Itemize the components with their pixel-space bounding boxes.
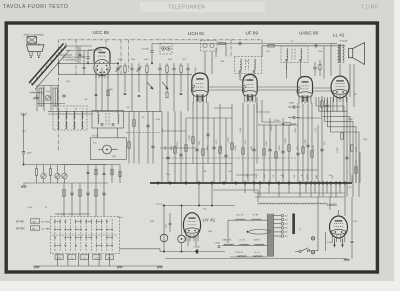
resistor R19 — [166, 92, 168, 98]
wire bundle staircase — [316, 97, 359, 197]
cable loop — [249, 230, 271, 235]
resistor R17 — [268, 45, 275, 47]
coil L6 — [74, 112, 75, 120]
heater row 2 — [222, 244, 268, 246]
wire — [120, 248, 161, 250]
resistor R21 — [107, 90, 109, 96]
svg-text:4,7kΩ: 4,7kΩ — [216, 139, 218, 144]
riser x276 — [275, 125, 277, 183]
svg-text:LL 41: LL 41 — [255, 252, 261, 254]
wire — [339, 183, 341, 193]
wire — [239, 74, 241, 81]
svg-text:145: 145 — [285, 228, 288, 230]
tuning gang dashed drop 3 — [230, 40, 232, 57]
T2 capacitor Cb — [299, 59, 301, 61]
antenna socket prong 2 — [38, 52, 40, 56]
svg-text:0,2MΩ: 0,2MΩ — [228, 137, 230, 143]
B+ line 2 — [262, 45, 345, 47]
trimmer capacitor CT4 — [55, 173, 60, 178]
resistor R3 — [166, 66, 168, 73]
svg-text:220: 220 — [285, 215, 288, 217]
capacitor C14 — [86, 192, 89, 194]
mains transformer winding — [268, 214, 274, 257]
resistor R16 — [219, 42, 226, 44]
hline y131 — [162, 130, 186, 132]
svg-text:FM: FM — [32, 228, 35, 230]
wire — [187, 237, 189, 246]
svg-text:100pF: 100pF — [240, 127, 242, 133]
capacitor C11 — [146, 124, 149, 126]
svg-text:25µF: 25µF — [166, 174, 170, 176]
capacitor C10 — [112, 123, 115, 125]
riser x289 — [288, 125, 290, 183]
svg-text:OM: OM — [32, 221, 36, 223]
svg-text:UCC 85: UCC 85 — [236, 215, 244, 217]
tuning gang dashed drop 2 — [128, 40, 130, 72]
wire — [329, 197, 331, 210]
coil L8 — [58, 121, 59, 129]
antenna socket box — [27, 37, 37, 44]
page inner area — [8, 25, 376, 270]
hline y118b — [298, 117, 322, 119]
svg-text:2x: 2x — [114, 149, 116, 151]
hline y108 — [214, 107, 232, 109]
svg-text:100pF: 100pF — [207, 146, 209, 151]
svg-text:FO: FO — [95, 257, 98, 259]
svg-text:5nF: 5nF — [273, 175, 275, 178]
ferrite winding former 1 — [39, 88, 44, 106]
resistor R22 — [95, 169, 97, 175]
svg-text:0,5MΩ: 0,5MΩ — [285, 138, 287, 144]
wire — [88, 49, 102, 51]
svg-text:12pF: 12pF — [46, 91, 50, 93]
wire — [165, 258, 300, 260]
wire — [169, 213, 171, 223]
AVC dashed line — [162, 157, 298, 159]
ground — [345, 258, 350, 260]
svg-text:10.000pF: 10.000pF — [340, 40, 349, 42]
resistor R23 — [111, 169, 113, 175]
wire — [257, 97, 270, 112]
svg-text:30pF: 30pF — [131, 59, 135, 61]
T1 winding 1 — [240, 59, 241, 70]
B+ line — [210, 43, 331, 45]
riser UABC80 pin 3 — [307, 104, 309, 183]
ground — [118, 266, 123, 268]
wire — [162, 205, 235, 207]
tube LL41 — [331, 76, 349, 102]
wire — [338, 210, 340, 216]
tuning gang dashed line — [59, 40, 263, 150]
UCC85 pin drop wires — [96, 75, 108, 112]
ground — [35, 266, 40, 268]
tastiera center line — [52, 234, 118, 236]
long wire — [48, 110, 162, 112]
wire — [23, 154, 25, 165]
capacitor C26 — [180, 92, 183, 94]
wire — [286, 63, 288, 70]
svg-text:25µF: 25µF — [332, 175, 334, 179]
riser x318 — [317, 125, 319, 183]
hline y163 — [168, 163, 232, 165]
wire — [24, 164, 108, 166]
wire — [330, 44, 332, 77]
bus lower line 1 — [255, 192, 345, 194]
svg-text:200pF: 200pF — [295, 127, 297, 133]
capacitor C34 — [83, 66, 86, 68]
capacitor C23 — [314, 44, 316, 47]
ferrite rod antenna — [29, 43, 70, 90]
riser UCH81 pin 4 — [207, 102, 209, 164]
resistor R9 — [128, 142, 130, 149]
svg-text:0,1MΩ: 0,1MΩ — [189, 135, 191, 141]
riser UF89 pin 2 — [247, 104, 249, 183]
svg-text:80pF: 80pF — [168, 59, 172, 61]
riser LL41 pin 3 — [342, 99, 344, 112]
capacitor C8 — [62, 94, 65, 96]
svg-text:MF PRI: MF PRI — [16, 221, 24, 223]
wire — [262, 100, 281, 122]
tube UM80 — [330, 216, 348, 242]
border frame — [6, 23, 377, 272]
svg-text:TELEFUNKEN: TELEFUNKEN — [168, 5, 205, 11]
svg-text:470: 470 — [142, 117, 145, 119]
riser x168 — [167, 111, 169, 183]
svg-text:0,1µF: 0,1µF — [28, 207, 32, 209]
wire — [23, 121, 25, 151]
UCC85 leg wires — [95, 67, 97, 75]
capacitor C29 — [87, 171, 90, 173]
resistor R6 — [49, 169, 51, 176]
svg-text:OL: OL — [66, 109, 68, 111]
svg-text:5.000pF: 5.000pF — [327, 242, 333, 244]
svg-text:2,35 mt: 2,35 mt — [156, 203, 163, 206]
wire — [59, 54, 73, 56]
wire — [198, 183, 200, 206]
wire riser group — [129, 111, 153, 163]
svg-text:1nF: 1nF — [301, 175, 304, 177]
svg-text:5.000µF: 5.000µF — [194, 247, 202, 249]
wire — [30, 43, 32, 45]
svg-text:100: 100 — [229, 171, 232, 173]
svg-text:UM80: UM80 — [327, 203, 337, 207]
capacitor C15 — [102, 192, 105, 194]
band switch box — [160, 44, 172, 55]
svg-text:500pF: 500pF — [171, 146, 173, 151]
T1 capacitor Cb — [253, 70, 255, 72]
coil L4 — [58, 112, 59, 120]
svg-text:T1/RF: T1/RF — [361, 4, 379, 10]
svg-text:UCC 85: UCC 85 — [93, 30, 110, 35]
wire — [239, 74, 241, 78]
voltage selector taps — [274, 214, 288, 238]
resistor R12 — [95, 190, 97, 197]
switch arrow 1 — [147, 82, 153, 89]
svg-text:0,5MΩ: 0,5MΩ — [107, 89, 113, 91]
capacitor C9 — [101, 123, 104, 125]
wire — [24, 182, 61, 184]
svg-text:1nF: 1nF — [246, 61, 249, 63]
svg-text:5.000pF: 5.000pF — [271, 124, 273, 131]
coil bank verticals — [37, 86, 58, 112]
trimmer capacitor CT1 — [116, 67, 119, 69]
svg-text:220pF: 220pF — [177, 141, 179, 147]
capacitor C19 5000pF — [196, 250, 198, 254]
wire — [317, 197, 319, 251]
resistor R20 — [319, 64, 321, 70]
riser x283 — [282, 118, 284, 183]
T1 capacitor Ca — [239, 70, 241, 72]
svg-text:UF 89: UF 89 — [246, 31, 259, 36]
chassis bus — [150, 182, 352, 184]
switch arrow 2 — [162, 82, 168, 89]
svg-text:OC: OC — [83, 257, 87, 259]
dial lamp LP1 — [103, 145, 112, 154]
wire — [355, 160, 357, 183]
ground — [158, 266, 163, 268]
riser x232 — [231, 104, 233, 183]
riser UF89 pin 4 — [256, 103, 258, 164]
svg-text:0,5MΩ: 0,5MΩ — [307, 174, 309, 180]
bandfilter winding 1 — [98, 113, 99, 124]
svg-text:25µF: 25µF — [353, 221, 357, 223]
tube UF89 — [242, 75, 257, 103]
svg-text:25pF: 25pF — [66, 81, 70, 83]
svg-text:4.700pF: 4.700pF — [195, 67, 197, 73]
resistor R10 — [63, 190, 65, 197]
long wire 2 — [48, 113, 92, 115]
tastiera drop wires — [58, 254, 110, 267]
riser x322 — [321, 118, 323, 183]
svg-text:UABC 80: UABC 80 — [223, 239, 233, 242]
capacitor C25 — [138, 94, 141, 96]
wire — [323, 46, 325, 79]
riser LL41 pin 1 — [332, 97, 334, 112]
svg-text:50pF: 50pF — [363, 139, 367, 141]
wire — [113, 62, 118, 64]
svg-text:160: 160 — [285, 224, 288, 226]
main bus left — [58, 62, 113, 64]
svg-text:UCH 81: UCH 81 — [236, 252, 244, 254]
IF transformer box T2 — [281, 46, 308, 63]
UM80 arrow 1 — [334, 239, 336, 247]
riser x226 — [225, 118, 227, 183]
wire — [213, 189, 258, 191]
T2 winding 1 — [287, 49, 288, 60]
bottom chassis line — [33, 265, 163, 267]
tube UCC85 — [94, 48, 110, 79]
riser LL41 pin 4 — [346, 97, 348, 112]
svg-text:50kΩ: 50kΩ — [199, 140, 201, 145]
svg-text:0,1MΩ: 0,1MΩ — [266, 141, 268, 147]
bandfilter box — [92, 111, 124, 129]
capacitor C24 — [124, 92, 127, 94]
heater link 2 — [258, 86, 297, 88]
svg-text:0,1MΩ: 0,1MΩ — [279, 145, 281, 151]
junction dots bottom — [163, 205, 213, 253]
svg-text:2nF: 2nF — [294, 175, 296, 178]
svg-text:2,5mH: 2,5mH — [118, 217, 124, 219]
wire — [181, 206, 183, 236]
wire — [244, 183, 246, 193]
svg-text:ANT: ANT — [22, 130, 25, 133]
mains plug pin 2 — [311, 251, 314, 254]
capacitor C27 — [313, 66, 316, 68]
hline y148 — [160, 147, 196, 149]
svg-text:467 KHZ: 467 KHZ — [41, 221, 50, 223]
svg-text:10nF: 10nF — [318, 51, 322, 53]
wire — [268, 183, 270, 193]
svg-text:UY 41: UY 41 — [240, 240, 247, 242]
svg-text:50: 50 — [45, 207, 47, 209]
svg-text:50pF: 50pF — [264, 174, 266, 178]
wire — [314, 183, 316, 193]
junction dots left — [23, 62, 154, 165]
capacitor C35 — [351, 197, 353, 240]
coil L7 — [82, 112, 83, 120]
capacitor C17 — [345, 156, 348, 158]
wire — [204, 51, 206, 74]
wire — [228, 219, 234, 221]
T2 winding 2 — [301, 49, 302, 60]
wire — [97, 128, 99, 138]
tuning gang dashed drop 1 — [105, 40, 107, 49]
heater row 1 — [234, 219, 268, 221]
svg-text:220: 220 — [349, 187, 352, 189]
riser UABC80 pin 4 — [311, 103, 313, 183]
power switch S1 — [299, 250, 301, 252]
riser x175 — [174, 111, 176, 183]
riser x270 — [269, 118, 271, 183]
coil L11 — [82, 121, 83, 129]
heater link 1 — [209, 86, 242, 88]
riser UCH81 pin 1 — [192, 102, 194, 164]
pilot lamp LP2 — [160, 234, 168, 242]
svg-text:50pF: 50pF — [144, 59, 148, 61]
svg-text:MF PER: MF PER — [16, 228, 25, 230]
mains plug pin 1 — [311, 237, 314, 240]
svg-text:0,1MΩ: 0,1MΩ — [337, 147, 339, 153]
dial lamp box — [90, 138, 126, 160]
svg-text:5nF: 5nF — [281, 175, 284, 177]
svg-text:H. 63: H. 63 — [93, 134, 99, 137]
svg-text:UM 80: UM 80 — [254, 240, 261, 242]
svg-text:350: 350 — [85, 99, 88, 101]
resistor R14 — [341, 133, 343, 140]
svg-text:0,1µF: 0,1µF — [156, 119, 160, 121]
bus link verticals — [260, 183, 345, 197]
trimmer capacitor CT6 — [62, 173, 67, 178]
wire — [286, 63, 288, 79]
coil L5 — [66, 112, 67, 120]
hline y170 — [255, 169, 318, 171]
capacitor C4 — [158, 67, 161, 69]
pilot lamp LP3 — [178, 235, 186, 243]
resistor R2 — [146, 66, 148, 73]
wire — [349, 64, 351, 97]
svg-text:1,5kΩ: 1,5kΩ — [245, 139, 247, 144]
antenna socket body — [27, 45, 45, 52]
svg-text:0,1MΩ: 0,1MΩ — [347, 119, 353, 121]
riser group 2 — [64, 183, 104, 217]
wire — [87, 50, 89, 56]
resistor R18 — [355, 167, 357, 174]
svg-text:0,2MΩ: 0,2MΩ — [221, 145, 223, 151]
trimmer capacitor CT2 — [137, 67, 140, 69]
riser UF89 pin 1 — [242, 103, 244, 183]
FM unit dashed border — [75, 40, 77, 75]
capacitor C2 — [130, 67, 133, 69]
wire — [300, 258, 347, 260]
wire — [60, 164, 120, 166]
bus lower line 2 — [255, 196, 345, 198]
svg-text:TAVOLA FUORI TESTO: TAVOLA FUORI TESTO — [3, 4, 68, 10]
svg-text:S1: S1 — [299, 229, 301, 231]
bandfilter core — [105, 113, 107, 125]
capacitor C12 — [151, 145, 154, 147]
external antenna symbol — [21, 113, 27, 122]
wire — [163, 206, 165, 235]
hline y125 — [258, 124, 298, 126]
trimmer capacitor CT3 — [41, 173, 46, 178]
svg-text:TASTIERA VISTA DAL DI SOTTO: TASTIERA VISTA DAL DI SOTTO — [55, 213, 90, 216]
tastiera box — [51, 217, 120, 254]
osc coil box T3 — [201, 41, 218, 52]
riser UCH81 pin 2 — [196, 103, 198, 183]
wire — [295, 251, 299, 253]
svg-text:125: 125 — [285, 232, 288, 234]
IF transformer box T1 — [235, 57, 262, 74]
voltage selector bar — [292, 214, 295, 235]
wire — [77, 46, 79, 63]
wire — [344, 197, 346, 216]
riser x186 — [185, 118, 187, 183]
svg-text:0,3MΩ: 0,3MΩ — [235, 145, 237, 151]
svg-text:0,5MΩ: 0,5MΩ — [313, 145, 315, 151]
wire — [261, 46, 263, 57]
wire — [58, 63, 60, 74]
resistor R15 — [351, 145, 353, 152]
tube UABC80 — [297, 77, 313, 104]
tube UCH81 — [191, 73, 208, 103]
svg-text:200: 200 — [285, 219, 288, 221]
riser UCH81 pin 3 — [202, 103, 204, 183]
ground — [22, 185, 27, 187]
resistor R13 — [321, 101, 323, 108]
wire — [163, 242, 165, 252]
heater link 3 — [313, 87, 331, 89]
riser LL41 pin 2 — [336, 99, 338, 112]
T1 winding 2 — [254, 59, 255, 70]
coil L10 — [74, 121, 75, 129]
heater row 3 — [230, 256, 268, 258]
svg-text:0,2MΩ: 0,2MΩ — [356, 147, 358, 153]
wire — [326, 183, 328, 193]
svg-text:100pF: 100pF — [289, 102, 295, 104]
capacitor C32 — [292, 116, 294, 119]
header highlight band — [140, 2, 265, 12]
wire — [305, 183, 307, 193]
resistor R11 — [79, 190, 81, 197]
svg-text:UCH 81: UCH 81 — [188, 31, 205, 36]
hline y118 — [186, 117, 232, 119]
output transformer TR1 — [338, 44, 345, 63]
ferrite winding former 2 — [53, 88, 58, 106]
UM80 arrow 2 — [342, 239, 344, 247]
svg-text:2nF: 2nF — [291, 41, 294, 43]
speaker cone — [349, 43, 365, 65]
trimmer capacitor CT5 — [45, 95, 50, 100]
